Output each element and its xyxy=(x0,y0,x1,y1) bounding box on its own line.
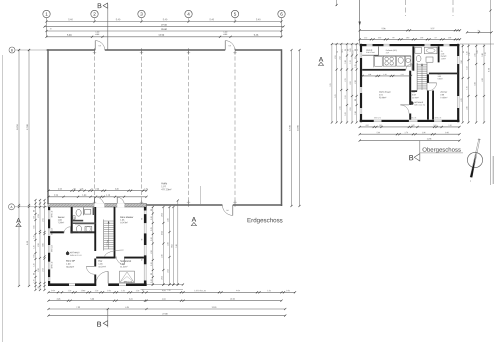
svg-text:1.26 1.00 1.26: 1.26 1.00 1.26 xyxy=(194,290,206,292)
svg-text:1.51: 1.51 xyxy=(353,50,355,53)
svg-text:2.26: 2.26 xyxy=(95,189,99,191)
OG stair treads xyxy=(417,64,427,91)
svg-text:2.41: 2.41 xyxy=(477,50,479,53)
svg-text:88: 88 xyxy=(151,273,153,275)
bottom dim row 3 xyxy=(47,307,286,310)
office left wall with window gaps xyxy=(48,207,53,285)
svg-text:90: 90 xyxy=(337,51,339,53)
svg-text:NA: NA xyxy=(229,44,232,47)
svg-text:5.40: 5.40 xyxy=(163,19,168,21)
svg-text:1.01: 1.01 xyxy=(34,225,36,228)
svg-text:1.36: 1.36 xyxy=(467,51,469,54)
svg-text:1.35: 1.35 xyxy=(151,227,153,230)
svg-text:1.36: 1.36 xyxy=(469,52,471,55)
section marker A left xyxy=(16,218,21,227)
svg-text:13.50: 13.50 xyxy=(230,299,235,301)
svg-text:2.26: 2.26 xyxy=(38,243,40,246)
svg-text:1.40: 1.40 xyxy=(82,195,87,197)
svg-text:2.26: 2.26 xyxy=(38,268,40,271)
OG abstell partition xyxy=(362,47,378,56)
svg-text:3.26: 3.26 xyxy=(115,189,119,191)
svg-text:11.41m²: 11.41m² xyxy=(412,96,419,99)
svg-text:1.26: 1.26 xyxy=(95,290,99,292)
svg-text:36: 36 xyxy=(38,287,40,289)
room label flur xyxy=(98,260,106,269)
svg-text:1.13: 1.13 xyxy=(364,37,367,39)
svg-text:3: 3 xyxy=(140,12,143,17)
svg-text:9.11: 9.11 xyxy=(330,83,332,86)
svg-text:1.63: 1.63 xyxy=(345,112,347,115)
svg-text:Büro GF: Büro GF xyxy=(66,260,76,263)
dimension row 13.50 split xyxy=(45,35,282,38)
stair right wall xyxy=(114,207,116,257)
grid bubbles 1-6 xyxy=(43,10,285,17)
OG right wall xyxy=(457,44,459,122)
office block top wall (hatched) xyxy=(48,204,147,207)
arthaus logo office xyxy=(66,251,83,257)
svg-text:2.01: 2.01 xyxy=(162,276,164,279)
svg-text:5.40: 5.40 xyxy=(210,19,215,21)
svg-text:1.385: 1.385 xyxy=(81,290,86,292)
svg-text:BRH 0.75: BRH 0.75 xyxy=(435,117,442,119)
svg-text:B: B xyxy=(11,48,13,52)
svg-text:4.88: 4.88 xyxy=(223,34,228,36)
OG left wall xyxy=(360,44,362,122)
OG stairwell right wall segments xyxy=(427,74,429,83)
svg-text:5.06: 5.06 xyxy=(90,299,94,301)
svg-text:2.51: 2.51 xyxy=(350,107,352,110)
svg-text:47: 47 xyxy=(91,189,93,191)
svg-text:1.01: 1.01 xyxy=(34,254,36,257)
svg-text:BRH 1.13: BRH 1.13 xyxy=(51,245,53,252)
svg-text:1.26: 1.26 xyxy=(34,279,36,282)
OG kitchen/bath dividing wall xyxy=(362,69,405,71)
svg-text:2.01: 2.01 xyxy=(162,213,164,216)
svg-text:BRH 0.75: BRH 0.75 xyxy=(410,117,417,119)
svg-text:3.34: 3.34 xyxy=(461,60,463,63)
svg-text:90: 90 xyxy=(393,37,395,39)
door width labels top xyxy=(95,32,228,36)
svg-text:9.86m²: 9.86m² xyxy=(438,77,444,80)
OG left col top stub xyxy=(336,0,338,6)
svg-text:3.11: 3.11 xyxy=(339,106,341,109)
OG arthaus logo xyxy=(410,101,425,107)
svg-text:A: A xyxy=(10,205,13,209)
dimension row 26.80 xyxy=(45,29,282,32)
drawing sheet border (left edge) xyxy=(2,55,4,342)
svg-text:2.59: 2.59 xyxy=(38,214,40,217)
section circle B left xyxy=(9,47,47,53)
svg-text:1: 1 xyxy=(45,12,48,17)
svg-text:2.26: 2.26 xyxy=(162,254,164,257)
svg-text:5.40: 5.40 xyxy=(116,19,121,21)
OG window labels bottom xyxy=(374,117,441,119)
svg-text:1.26: 1.26 xyxy=(151,216,153,219)
svg-text:ARTHAUS: ARTHAUS xyxy=(414,101,424,104)
grid dashed lines in hall xyxy=(95,50,236,205)
server door arc xyxy=(64,227,71,234)
door gaps in office top wall xyxy=(94,203,124,207)
svg-text:2.55: 2.55 xyxy=(43,218,45,221)
OG zi2.03 left wall xyxy=(438,46,440,62)
office right wall with window gaps xyxy=(142,207,147,286)
svg-text:2.53: 2.53 xyxy=(54,195,59,197)
OG bath fixtures xyxy=(415,47,437,62)
svg-text:4: 4 xyxy=(187,12,190,17)
OG label wohn essen xyxy=(379,92,392,100)
svg-text:88: 88 xyxy=(355,49,357,51)
svg-text:28: 28 xyxy=(477,30,479,32)
svg-text:1.13: 1.13 xyxy=(485,52,487,55)
svg-text:13.50: 13.50 xyxy=(158,35,164,37)
door arcs from office into hall xyxy=(95,197,105,207)
svg-text:3.26: 3.26 xyxy=(168,242,170,245)
svg-text:7.00: 7.00 xyxy=(76,307,80,309)
svg-text:BRH 0.75: BRH 0.75 xyxy=(374,117,381,119)
stair bottom door arc xyxy=(105,250,124,256)
svg-text:2.63: 2.63 xyxy=(339,56,341,59)
svg-text:5.40: 5.40 xyxy=(68,19,73,21)
OG bottom dim row 2 xyxy=(359,132,461,135)
svg-text:2: 2 xyxy=(93,12,96,17)
svg-text:5.16: 5.16 xyxy=(176,244,178,247)
OG stair rails xyxy=(416,63,418,91)
svg-text:2.02: 2.02 xyxy=(412,94,416,96)
hatched porch rect xyxy=(120,271,135,283)
svg-text:B: B xyxy=(97,3,102,10)
svg-text:95: 95 xyxy=(357,49,359,51)
dimension row 5.40 bays xyxy=(45,19,282,22)
svg-text:4.79: 4.79 xyxy=(461,98,463,101)
svg-text:1.26: 1.26 xyxy=(151,279,153,282)
grid tick marks inside hall bottom xyxy=(93,201,237,207)
svg-text:90: 90 xyxy=(142,239,144,241)
hall top wall xyxy=(47,49,282,51)
svg-text:5.36: 5.36 xyxy=(377,132,381,134)
svg-text:4.04: 4.04 xyxy=(125,307,129,309)
svg-text:Zimmer: Zimmer xyxy=(440,92,447,94)
svg-text:16.86: 16.86 xyxy=(298,124,300,130)
wall below server+wc xyxy=(50,231,64,233)
svg-text:11.21m²: 11.21m² xyxy=(120,265,128,268)
svg-text:8.04: 8.04 xyxy=(172,244,174,247)
svg-text:14.23m²: 14.23m² xyxy=(440,96,447,99)
interior dim stub in hall xyxy=(200,186,202,205)
svg-text:4.04: 4.04 xyxy=(365,125,368,127)
OG bottom wall xyxy=(360,120,460,122)
svg-text:S: S xyxy=(470,181,472,183)
svg-text:5: 5 xyxy=(234,12,237,17)
hall right wall xyxy=(281,49,283,206)
section marker A OG xyxy=(318,57,323,66)
hall left wall xyxy=(47,49,49,204)
svg-text:27.00: 27.00 xyxy=(161,25,167,27)
svg-text:88: 88 xyxy=(34,210,36,212)
svg-text:1.80: 1.80 xyxy=(406,37,409,39)
svg-text:1.26: 1.26 xyxy=(34,235,36,238)
svg-text:1.26: 1.26 xyxy=(151,237,153,240)
OG interior wall flur/wohn xyxy=(409,71,411,105)
svg-text:Büro Meister: Büro Meister xyxy=(120,216,133,219)
svg-text:62: 62 xyxy=(355,57,357,59)
svg-text:11.96: 11.96 xyxy=(427,138,432,140)
svg-text:1.01: 1.01 xyxy=(350,48,352,51)
svg-text:17.36: 17.36 xyxy=(290,124,292,130)
svg-text:1.26: 1.26 xyxy=(34,263,36,266)
room label sekretariat xyxy=(120,260,131,269)
OG kitchen counter + appliances xyxy=(374,56,411,68)
svg-text:88: 88 xyxy=(151,209,153,211)
svg-text:3.64: 3.64 xyxy=(168,269,170,272)
office bottom wall with openings xyxy=(48,283,147,286)
bottom dim row 4 total xyxy=(47,313,286,316)
svg-text:ARTHAUS: ARTHAUS xyxy=(70,251,80,254)
interior dimension rows above office wall xyxy=(47,189,147,198)
svg-text:4.78: 4.78 xyxy=(474,82,476,85)
svg-text:2.36: 2.36 xyxy=(422,132,426,134)
wall server/wc divider xyxy=(71,207,73,233)
svg-text:5.08: 5.08 xyxy=(67,35,72,37)
svg-text:1.00: 1.00 xyxy=(411,125,414,127)
svg-text:88: 88 xyxy=(355,99,357,101)
svg-text:88: 88 xyxy=(348,49,350,51)
svg-text:2.38: 2.38 xyxy=(355,80,357,83)
svg-text:2.51: 2.51 xyxy=(335,55,337,58)
svg-text:1.50: 1.50 xyxy=(355,111,357,114)
svg-text:5.46: 5.46 xyxy=(254,35,259,37)
section circle A left xyxy=(9,204,48,210)
svg-text:1.635: 1.635 xyxy=(162,231,164,235)
svg-text:2.11: 2.11 xyxy=(345,78,347,81)
sekretariat door arc xyxy=(116,257,124,265)
svg-text:1.26: 1.26 xyxy=(136,290,140,292)
section marker B top xyxy=(97,3,108,50)
svg-text:1.38: 1.38 xyxy=(345,60,347,63)
hall bottom wall (right of office block) xyxy=(147,204,283,206)
svg-text:GMBH & CO. KG: GMBH & CO. KG xyxy=(70,255,82,257)
svg-text:B: B xyxy=(409,153,414,162)
svg-text:4.04: 4.04 xyxy=(236,290,240,292)
svg-text:88: 88 xyxy=(463,51,465,53)
OG label flur xyxy=(412,92,419,100)
svg-text:1.00: 1.00 xyxy=(107,290,111,292)
svg-text:15.27m²: 15.27m² xyxy=(98,265,106,268)
svg-text:Wohn Essen: Wohn Essen xyxy=(379,92,392,94)
svg-text:27.00: 27.00 xyxy=(162,313,168,315)
stair left rail xyxy=(103,220,105,251)
OG bottom dim row 1 xyxy=(359,125,461,128)
bottom dim row 1 (details) xyxy=(47,290,296,293)
svg-text:Flur: Flur xyxy=(412,92,416,94)
svg-text:88: 88 xyxy=(34,273,36,275)
door (top wall right) with swing arc xyxy=(225,41,235,50)
svg-text:2.53: 2.53 xyxy=(58,189,62,191)
OG right dim columns xyxy=(460,44,494,124)
svg-text:1.26m²: 1.26m² xyxy=(441,57,447,60)
svg-text:5.40: 5.40 xyxy=(256,19,261,21)
svg-text:38.26m²: 38.26m² xyxy=(66,266,74,269)
svg-text:2.11: 2.11 xyxy=(401,74,404,76)
svg-text:5.96: 5.96 xyxy=(382,28,387,30)
svg-text:4.88: 4.88 xyxy=(95,34,100,36)
svg-text:3.24: 3.24 xyxy=(129,299,133,301)
svg-text:98: 98 xyxy=(73,189,75,191)
svg-text:1.76: 1.76 xyxy=(467,86,469,89)
svg-text:2.07: 2.07 xyxy=(386,52,389,54)
wall below stairs/bueroMeister (y257) xyxy=(96,257,115,259)
svg-text:3.30: 3.30 xyxy=(445,132,449,134)
svg-text:1.26: 1.26 xyxy=(34,245,36,248)
svg-text:2.63: 2.63 xyxy=(350,81,352,84)
label Obergeschoss + B marker xyxy=(420,148,463,154)
svg-text:2.01: 2.01 xyxy=(342,49,344,52)
svg-text:96: 96 xyxy=(345,49,347,51)
svg-text:1.26: 1.26 xyxy=(80,189,84,191)
svg-text:1.51: 1.51 xyxy=(345,95,347,98)
svg-text:2.26: 2.26 xyxy=(57,299,61,301)
stair arrow + label xyxy=(106,221,110,249)
svg-text:1.76: 1.76 xyxy=(404,132,408,134)
OG labels top-right room xyxy=(441,51,447,60)
door (bottom wall) with swing arc xyxy=(222,205,232,215)
OG grid continuation lines top xyxy=(359,0,361,44)
section marker A right xyxy=(191,217,196,226)
door opening gaps in hall walls xyxy=(95,49,235,207)
svg-text:NA: NA xyxy=(226,209,229,212)
OG far right dim line xyxy=(490,0,492,185)
dim row right of block (y284.6) xyxy=(141,284,185,292)
svg-text:16.50: 16.50 xyxy=(17,123,19,129)
door (top wall left) with swing arc xyxy=(95,41,105,50)
svg-text:1.26: 1.26 xyxy=(267,290,271,292)
svg-text:16.43m²: 16.43m² xyxy=(120,221,128,224)
room label buero gf xyxy=(66,260,76,269)
svg-text:1.26: 1.26 xyxy=(34,216,36,219)
OG labels top-left xyxy=(366,49,375,54)
OG top dim row 1 xyxy=(359,28,462,31)
OG door arc wohn-flur xyxy=(400,105,409,114)
svg-text:BRH 1.13: BRH 1.13 xyxy=(51,211,53,218)
svg-text:1.88: 1.88 xyxy=(482,53,484,56)
svg-text:1.88: 1.88 xyxy=(368,74,371,76)
stair treads xyxy=(104,221,114,249)
svg-text:BRH 1.13: BRH 1.13 xyxy=(51,262,53,269)
svg-text:1.26: 1.26 xyxy=(68,290,72,292)
OG landing wall below stairs xyxy=(411,90,417,92)
svg-text:BRH 0.75: BRH 0.75 xyxy=(124,281,132,283)
svg-text:1.38: 1.38 xyxy=(383,74,386,76)
svg-text:2.26: 2.26 xyxy=(151,250,153,253)
svg-text:1.18: 1.18 xyxy=(106,195,111,197)
OG left dim columns xyxy=(330,43,360,124)
svg-text:2.33: 2.33 xyxy=(378,37,381,39)
svg-text:1.25: 1.25 xyxy=(355,64,357,67)
svg-text:1.63: 1.63 xyxy=(433,125,436,127)
svg-text:5.00: 5.00 xyxy=(43,243,45,246)
section marker B bottom xyxy=(97,309,108,329)
svg-text:4.04: 4.04 xyxy=(162,290,166,292)
OG label zimmer xyxy=(440,92,447,100)
wall corridor left (x95) xyxy=(94,207,96,251)
svg-text:35.89m²: 35.89m² xyxy=(379,96,387,99)
OG top dim row 2 xyxy=(359,37,462,40)
OG interior wall flur/zimmer xyxy=(432,91,434,120)
svg-text:6: 6 xyxy=(280,12,283,17)
svg-text:26.80: 26.80 xyxy=(161,29,167,31)
OG bath left wall xyxy=(412,46,414,70)
OG top wall xyxy=(360,44,460,46)
OG label zim 2.05 xyxy=(438,74,444,81)
room label server xyxy=(58,216,65,224)
svg-text:17 Stg: 17 Stg xyxy=(106,241,109,246)
left vertical dim line 2 xyxy=(27,49,30,287)
OG door arc kitchen xyxy=(406,64,412,70)
grid tick marks inside hall top xyxy=(93,48,237,54)
svg-text:1.63: 1.63 xyxy=(379,125,382,127)
svg-text:2.59: 2.59 xyxy=(43,268,45,271)
svg-text:4.04: 4.04 xyxy=(162,299,166,301)
svg-text:B: B xyxy=(97,320,102,329)
svg-text:NA: NA xyxy=(99,44,102,47)
svg-text:1.03: 1.03 xyxy=(98,264,103,266)
svg-text:1.76: 1.76 xyxy=(144,189,148,191)
OG interior dim row below kitchen wall xyxy=(361,74,412,77)
grid line stubs through dim rows xyxy=(47,18,282,37)
svg-text:Sekretariat: Sekretariat xyxy=(120,260,131,263)
wc fixtures upper xyxy=(73,208,96,233)
svg-text:Flur: Flur xyxy=(98,260,102,263)
left inner dim column (office) xyxy=(34,199,46,291)
OG wall under zi2.03 xyxy=(429,73,457,75)
svg-text:3.64: 3.64 xyxy=(51,290,55,292)
svg-text:1.00: 1.00 xyxy=(66,264,71,266)
OG door arc flur-zimmer (zim 2.05) xyxy=(429,83,437,91)
right of hall dim line 2 xyxy=(298,49,301,207)
svg-text:1.26: 1.26 xyxy=(167,290,170,292)
dimension row 27.00 xyxy=(43,25,284,28)
hall room label xyxy=(161,181,171,191)
svg-text:2.06: 2.06 xyxy=(440,94,444,96)
svg-text:5.11: 5.11 xyxy=(335,94,337,97)
svg-text:1.38: 1.38 xyxy=(448,125,451,127)
left vertical dim line 1 xyxy=(17,49,20,287)
svg-text:1.26: 1.26 xyxy=(121,290,125,292)
dim column right of office block xyxy=(151,199,179,285)
svg-text:1.26: 1.26 xyxy=(151,262,153,265)
svg-text:1.38: 1.38 xyxy=(448,37,451,39)
svg-text:10: 10 xyxy=(50,28,52,30)
entrance door arc (bottom wall) xyxy=(96,271,108,283)
svg-text:2.41: 2.41 xyxy=(474,53,476,56)
svg-text:2.36: 2.36 xyxy=(467,106,469,109)
svg-text:1.00: 1.00 xyxy=(286,290,290,292)
room label buero meister xyxy=(120,216,133,224)
svg-text:Erdgeschoss: Erdgeschoss xyxy=(247,217,283,224)
buero gf door arc xyxy=(86,266,94,274)
north arrow compass xyxy=(467,138,482,182)
svg-text:3.26: 3.26 xyxy=(168,218,170,221)
svg-text:7.28m²: 7.28m² xyxy=(58,221,65,224)
svg-text:477.23m²: 477.23m² xyxy=(161,188,171,191)
svg-text:17.86: 17.86 xyxy=(27,123,29,129)
svg-text:4.78: 4.78 xyxy=(482,78,484,81)
svg-text:1.38: 1.38 xyxy=(420,37,423,39)
OG bottom dim row 3 xyxy=(359,138,461,141)
svg-text:13: 13 xyxy=(435,37,437,39)
right edge short line xyxy=(492,156,494,184)
svg-text:GMBH & CO. KG: GMBH & CO. KG xyxy=(414,104,425,106)
OG top right small dim row xyxy=(466,30,493,33)
